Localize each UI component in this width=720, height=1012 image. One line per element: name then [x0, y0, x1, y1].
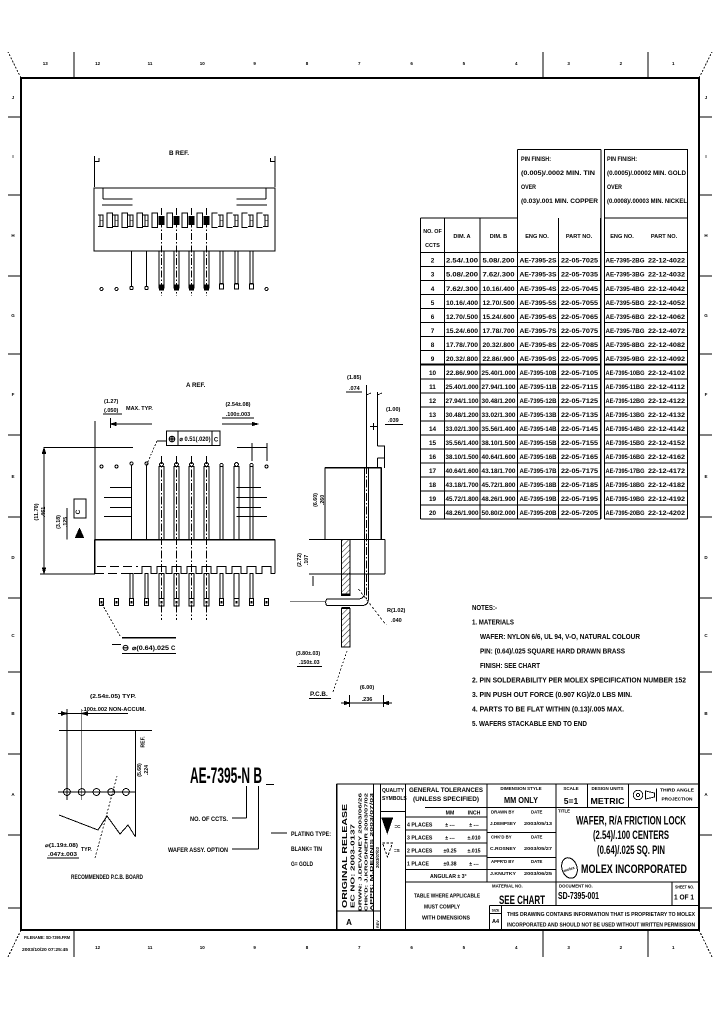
- svg-text:2: 2: [620, 61, 623, 66]
- svg-text:22.86/.900: 22.86/.900: [446, 370, 479, 377]
- svg-text:22-05-7175: 22-05-7175: [561, 468, 599, 475]
- svg-text:7: 7: [358, 61, 361, 66]
- svg-text:± ---: ± ---: [445, 836, 455, 842]
- checked by cell: [490, 835, 552, 853]
- table header row: [423, 229, 677, 249]
- approved by cell: [490, 859, 552, 877]
- svg-text:40.64/1.600: 40.64/1.600: [482, 454, 517, 461]
- svg-text:THIS DRAWING CONTAINS INFORMAT: THIS DRAWING CONTAINS INFORMATION THAT I…: [507, 912, 695, 918]
- svg-text:(6.60): (6.60): [313, 493, 319, 507]
- table row 15 circuits: [429, 440, 686, 447]
- svg-text:22-12-4042: 22-12-4042: [648, 286, 686, 293]
- svg-text:PIN FINISH:: PIN FINISH:: [607, 157, 637, 163]
- svg-text:22-12-4092: 22-12-4092: [648, 356, 686, 363]
- svg-text:2003/06/25: 2003/06/25: [524, 871, 552, 877]
- table row 3 circuits: [431, 272, 686, 279]
- svg-text:C: C: [171, 646, 176, 652]
- svg-text:9: 9: [431, 356, 435, 363]
- svg-text:22-12-4062: 22-12-4062: [648, 314, 686, 321]
- svg-text:AE-7395-19B: AE-7395-19B: [520, 496, 558, 503]
- svg-text:D: D: [11, 555, 15, 560]
- svg-text:A4: A4: [492, 919, 500, 925]
- svg-text:AE-7395-12BG: AE-7395-12BG: [606, 398, 645, 405]
- pcb board height dim: [137, 736, 150, 777]
- svg-text:CCTS: CCTS: [425, 243, 440, 249]
- svg-text:DESIGN UNITS: DESIGN UNITS: [591, 786, 623, 791]
- svg-text:22-12-4162: 22-12-4162: [648, 454, 686, 461]
- svg-text:ENG NO.: ENG NO.: [610, 234, 634, 240]
- svg-text:AE-7395-6S: AE-7395-6S: [520, 314, 557, 321]
- A REF body block: [95, 540, 275, 574]
- svg-text:METRIC: METRIC: [591, 796, 625, 806]
- svg-text:22-05-7125: 22-05-7125: [561, 398, 599, 405]
- svg-text:⌀(1.19±.08): ⌀(1.19±.08): [45, 843, 78, 849]
- svg-text:17.78/.700: 17.78/.700: [446, 342, 479, 349]
- svg-text:(3.80±.03): (3.80±.03): [296, 651, 320, 657]
- table row 5 circuits: [431, 300, 686, 307]
- svg-text:13: 13: [429, 412, 437, 419]
- svg-text:12.70/.500: 12.70/.500: [483, 300, 516, 307]
- svg-text:30.48/1.200: 30.48/1.200: [446, 412, 480, 419]
- svg-text:22-05-7105: 22-05-7105: [561, 370, 599, 377]
- svg-text:18: 18: [429, 482, 437, 489]
- svg-text:AE-7395-8S: AE-7395-8S: [520, 342, 557, 349]
- B REF connector body (top view): [94, 188, 275, 251]
- svg-text:PIN: (0.64)/.025 SQUARE HARD D: PIN: (0.64)/.025 SQUARE HARD DRAWN BRASS: [480, 647, 625, 656]
- svg-text:22-05-7045: 22-05-7045: [561, 286, 599, 293]
- svg-text:P.C.B.: P.C.B.: [310, 691, 328, 698]
- A REF datum height dimension: [56, 508, 69, 540]
- proprietary note: [507, 912, 695, 929]
- svg-text:11: 11: [148, 945, 153, 950]
- A REF pins below body: [99, 574, 268, 607]
- svg-text:AE-7395-20B: AE-7395-20B: [520, 510, 558, 517]
- svg-text:22-05-7095: 22-05-7095: [561, 356, 599, 363]
- svg-text:12.70/.500: 12.70/.500: [446, 314, 479, 321]
- position tolerance frame: [146, 431, 220, 466]
- svg-text:D: D: [704, 555, 708, 560]
- table row 10 circuits: [429, 370, 686, 377]
- svg-text:22-05-7085: 22-05-7085: [561, 342, 599, 349]
- svg-text:±0.38: ±0.38: [444, 862, 457, 868]
- svg-text:22-05-7205: 22-05-7205: [561, 510, 599, 517]
- svg-text:EC NO: 2003-0137: EC NO: 2003-0137: [351, 824, 357, 908]
- pcb board outline: [59, 731, 152, 838]
- svg-text:3 PLACES: 3 PLACES: [407, 836, 433, 842]
- svg-text:20: 20: [429, 510, 437, 517]
- svg-text:MM: MM: [446, 811, 455, 817]
- svg-text:22-12-4172: 22-12-4172: [648, 468, 686, 475]
- svg-text:MOLEX INCORPORATED: MOLEX INCORPORATED: [581, 862, 687, 876]
- svg-text:AE-7395-2BG: AE-7395-2BG: [606, 258, 645, 265]
- svg-text:RECOMMENDED P.C.B. BOARD: RECOMMENDED P.C.B. BOARD: [71, 875, 144, 881]
- svg-text:22-12-4152: 22-12-4152: [648, 440, 686, 447]
- svg-text:2003/10/20 07:25:45: 2003/10/20 07:25:45: [22, 947, 68, 953]
- svg-text:2003/07/03: 2003/07/03: [375, 846, 380, 868]
- svg-text:⊖: ⊖: [122, 643, 129, 653]
- svg-text:22-12-4102: 22-12-4102: [648, 370, 686, 377]
- svg-text:NO. OF: NO. OF: [423, 229, 442, 235]
- svg-text:4 PLACES: 4 PLACES: [407, 823, 433, 829]
- svg-text:(UNLESS SPECIFIED): (UNLESS SPECIFIED): [413, 796, 479, 803]
- svg-text:4: 4: [515, 61, 518, 66]
- svg-text:3: 3: [431, 272, 435, 279]
- svg-text:43.18/1.700: 43.18/1.700: [446, 482, 480, 489]
- svg-text:WAFER, R/A FRICTION LOCK: WAFER, R/A FRICTION LOCK: [576, 814, 686, 828]
- table row 11 circuits: [429, 384, 686, 391]
- svg-text:OVER: OVER: [521, 185, 537, 191]
- svg-text:22-12-4032: 22-12-4032: [648, 272, 686, 279]
- svg-text:AE-7395-18B: AE-7395-18B: [520, 482, 558, 489]
- pin finish note tin: [518, 150, 601, 218]
- svg-text:2: 2: [431, 258, 435, 265]
- B REF dimension: [95, 150, 276, 187]
- svg-text:J: J: [705, 95, 708, 100]
- svg-text:22-05-7155: 22-05-7155: [561, 440, 599, 447]
- part number table grid: [421, 218, 688, 519]
- svg-text:(3.18): (3.18): [56, 515, 62, 529]
- dimension style cell: [500, 786, 541, 805]
- svg-text:30.48/1.200: 30.48/1.200: [482, 398, 517, 405]
- svg-text:A REF.: A REF.: [186, 382, 206, 389]
- svg-text:22-05-7135: 22-05-7135: [561, 412, 599, 419]
- svg-text:.100±.003: .100±.003: [226, 412, 250, 418]
- svg-text:22-05-7055: 22-05-7055: [561, 300, 599, 307]
- svg-text:AE-7395-10B: AE-7395-10B: [520, 370, 558, 377]
- svg-text:22-05-7145: 22-05-7145: [561, 426, 599, 433]
- svg-text:I: I: [705, 154, 706, 159]
- svg-text:AE-7395-17B: AE-7395-17B: [520, 468, 558, 475]
- svg-text:E: E: [11, 474, 14, 479]
- svg-text:G: G: [704, 313, 708, 318]
- table row 8 circuits: [431, 342, 686, 349]
- svg-text:22-12-4192: 22-12-4192: [648, 496, 686, 503]
- svg-text:7: 7: [431, 328, 435, 335]
- pin finish note gold: [605, 150, 688, 218]
- svg-text:REV: REV: [376, 920, 380, 928]
- svg-text:± ---: ± ---: [469, 862, 479, 868]
- svg-text:22-12-4202: 22-12-4202: [648, 510, 686, 517]
- table row 2 circuits: [431, 258, 686, 265]
- svg-text:INCH: INCH: [468, 811, 481, 817]
- svg-text:J: J: [12, 95, 15, 100]
- document no cell: [558, 884, 599, 903]
- svg-text:22-05-7075: 22-05-7075: [561, 328, 599, 335]
- svg-text:AE-7395-20BG: AE-7395-20BG: [606, 510, 645, 517]
- svg-text:SCALE: SCALE: [563, 786, 578, 791]
- legend leader no of ccts: [190, 786, 247, 823]
- svg-text:22-05-7195: 22-05-7195: [561, 496, 599, 503]
- svg-text:AE-7395-3BG: AE-7395-3BG: [606, 272, 645, 279]
- legend plating type: [271, 832, 331, 868]
- svg-text:1 OF 1: 1 OF 1: [674, 893, 694, 902]
- svg-text:AE-7395-16B: AE-7395-16B: [520, 454, 558, 461]
- svg-text:NO. OF CCTS.: NO. OF CCTS.: [190, 817, 228, 823]
- revision letter: [346, 918, 352, 927]
- svg-text:SIZE: SIZE: [492, 909, 500, 913]
- svg-text:NOTES:-: NOTES:-: [472, 603, 497, 612]
- svg-text:35.56/1.400: 35.56/1.400: [482, 426, 517, 433]
- tolerance table: [407, 811, 481, 880]
- table row 6 circuits: [431, 314, 686, 321]
- third angle projection symbol: [633, 788, 694, 802]
- svg-text:C: C: [704, 633, 708, 638]
- A REF pins above body: [100, 456, 268, 620]
- svg-text:19: 19: [429, 496, 437, 503]
- svg-text:27.94/1.100: 27.94/1.100: [446, 398, 480, 405]
- svg-text:C: C: [11, 633, 15, 638]
- B REF contact cavities row: [98, 213, 268, 228]
- svg-text:4. PARTS TO BE FLAT WITHIN (0.: 4. PARTS TO BE FLAT WITHIN (0.13)/.005 M…: [472, 705, 624, 714]
- svg-text:DATE: DATE: [531, 810, 543, 815]
- section view latch tab: [378, 446, 385, 468]
- svg-text:5: 5: [463, 945, 466, 950]
- svg-text:22-12-4142: 22-12-4142: [648, 426, 686, 433]
- svg-text:DIM. A: DIM. A: [453, 234, 470, 240]
- quality symbols: [382, 788, 407, 857]
- svg-text:2. PIN SOLDERABILITY PER MOLEX: 2. PIN SOLDERABILITY PER MOLEX SPECIFICA…: [472, 676, 686, 685]
- svg-text:.150±.03: .150±.03: [299, 660, 320, 666]
- svg-text:WAFER: NYLON 6/6, UL 94, V-O,: WAFER: NYLON 6/6, UL 94, V-O, NATURAL CO…: [480, 632, 641, 641]
- svg-text:5: 5: [463, 61, 466, 66]
- svg-text:8: 8: [306, 945, 309, 950]
- svg-text:MATERIAL NO.: MATERIAL NO.: [492, 884, 523, 889]
- table row 16 circuits: [429, 454, 686, 461]
- svg-text:J.KNUTKY: J.KNUTKY: [490, 871, 517, 877]
- svg-text:AE-7395-15BG: AE-7395-15BG: [606, 440, 645, 447]
- section view right-angle pin: [290, 385, 368, 606]
- svg-text:TITLE: TITLE: [558, 809, 570, 814]
- svg-text:(0.0008)/.00003 MIN. NICKEL: (0.0008)/.00003 MIN. NICKEL: [607, 199, 687, 205]
- svg-text:(2.54)/.100 CENTERS: (2.54)/.100 CENTERS: [593, 828, 669, 842]
- svg-text:SHEET NO.: SHEET NO.: [675, 885, 694, 890]
- svg-text:WITH DIMENSIONS: WITH DIMENSIONS: [422, 916, 470, 922]
- metric note: [414, 894, 480, 922]
- pin bend radius callout: [359, 589, 406, 625]
- svg-text:±.010: ±.010: [468, 836, 481, 842]
- svg-text:33.02/1.300: 33.02/1.300: [482, 412, 517, 419]
- svg-text:6: 6: [410, 61, 413, 66]
- A REF left body edge line: [94, 421, 96, 540]
- A REF label: [186, 382, 206, 389]
- svg-text:4: 4: [515, 945, 518, 950]
- svg-text:22-05-7035: 22-05-7035: [561, 272, 599, 279]
- svg-text:16: 16: [429, 454, 437, 461]
- svg-text:SEE CHART: SEE CHART: [499, 893, 545, 907]
- table row 19 circuits: [429, 496, 686, 503]
- svg-text:.236: .236: [362, 697, 373, 703]
- svg-text:(.050): (.050): [104, 408, 119, 414]
- svg-text:AE-7395-2S: AE-7395-2S: [520, 258, 557, 265]
- svg-text:15: 15: [429, 440, 437, 447]
- svg-text:DIMENSION STYLE: DIMENSION STYLE: [500, 786, 541, 791]
- section view body height dim: [313, 493, 326, 507]
- datum C flag: [74, 499, 86, 538]
- svg-text:5=1: 5=1: [564, 796, 579, 806]
- svg-text:11: 11: [148, 61, 153, 66]
- svg-text:(1.00): (1.00): [386, 407, 401, 413]
- svg-text:=S: =S: [394, 848, 400, 853]
- size cell: [492, 909, 500, 926]
- svg-text:22-12-4022: 22-12-4022: [648, 258, 686, 265]
- svg-text:22-05-7185: 22-05-7185: [561, 482, 599, 489]
- A REF side break lines left: [104, 488, 132, 517]
- svg-text:WAFER ASSY. OPTION: WAFER ASSY. OPTION: [168, 848, 228, 854]
- pcb hole diameter callout: [45, 776, 117, 858]
- svg-text:22-05-7025: 22-05-7025: [561, 258, 599, 265]
- A REF side break lines right: [237, 488, 268, 517]
- svg-text:1: 1: [672, 61, 675, 66]
- A REF left max typ dimension: [103, 399, 153, 428]
- svg-text:FINISH: SEE CHART: FINISH: SEE CHART: [480, 661, 540, 670]
- A REF overall height dimension: [34, 448, 133, 574]
- svg-text:CHK'D: J.KROSNEHR 2003/07/02: CHK'D: J.KROSNEHR 2003/07/02: [364, 792, 370, 911]
- scale cell: [563, 786, 578, 806]
- svg-text:50.80/2.000: 50.80/2.000: [482, 510, 517, 517]
- svg-text:5.08/.200: 5.08/.200: [446, 272, 479, 279]
- svg-text:9: 9: [253, 945, 256, 950]
- svg-text:AE-7395-11B: AE-7395-11B: [520, 384, 558, 391]
- svg-text:38.10/1.500: 38.10/1.500: [446, 454, 480, 461]
- svg-text:(2.54±.08): (2.54±.08): [225, 402, 250, 408]
- svg-text:TYP.: TYP.: [81, 847, 92, 853]
- svg-text:DIM. B: DIM. B: [490, 234, 507, 240]
- section view standoff dim: [297, 553, 313, 586]
- svg-text:AE-7395-9S: AE-7395-9S: [520, 356, 557, 363]
- svg-text:(0.64)/.025 SQ. PIN: (0.64)/.025 SQ. PIN: [597, 843, 665, 857]
- svg-text:7.62/.300: 7.62/.300: [446, 286, 479, 293]
- svg-text:5.08/.200: 5.08/.200: [483, 258, 516, 265]
- material no cell: [492, 884, 545, 908]
- svg-text:H: H: [704, 233, 707, 238]
- svg-text:.047±.003: .047±.003: [48, 852, 77, 858]
- svg-text:48.26/1.900: 48.26/1.900: [446, 510, 480, 517]
- svg-text:2 PLACES: 2 PLACES: [407, 849, 433, 855]
- svg-text:AE-7395-4BG: AE-7395-4BG: [606, 286, 645, 293]
- pin tip tolerance callout: [102, 604, 176, 654]
- svg-text:5: 5: [431, 300, 435, 307]
- svg-text:(0.03)/.001 MIN. COPPER: (0.03)/.001 MIN. COPPER: [521, 199, 599, 205]
- table row 18 circuits: [429, 482, 686, 489]
- svg-text:22-05-7165: 22-05-7165: [561, 454, 599, 461]
- svg-text:A: A: [346, 918, 352, 927]
- svg-text:QUALITY: QUALITY: [382, 788, 405, 794]
- svg-text:GENERAL TOLERANCES: GENERAL TOLERANCES: [409, 787, 483, 794]
- svg-text:H: H: [11, 233, 14, 238]
- svg-text:AE-7395-18BG: AE-7395-18BG: [606, 482, 645, 489]
- drawn by cell: [490, 810, 552, 828]
- svg-text:FILENAME: SD-7395.FRM: FILENAME: SD-7395.FRM: [24, 935, 70, 940]
- svg-text:8: 8: [306, 61, 309, 66]
- sheet border frame: [21, 78, 699, 930]
- svg-text:(11.70): (11.70): [34, 503, 40, 520]
- svg-text:35.56/1.400: 35.56/1.400: [446, 440, 480, 447]
- svg-text:11: 11: [429, 384, 436, 391]
- svg-text:22-12-4132: 22-12-4132: [648, 412, 686, 419]
- pcb hole pattern: [58, 709, 136, 800]
- svg-text:F: F: [705, 392, 708, 397]
- svg-text:⌀(0.64).025: ⌀(0.64).025: [132, 646, 170, 652]
- svg-text:.224: .224: [144, 765, 150, 775]
- svg-text:40.64/1.600: 40.64/1.600: [446, 468, 480, 475]
- svg-text:DRWN: J.DEVANEY 2003/06/26: DRWN: J.DEVANEY 2003/06/26: [358, 792, 364, 911]
- svg-text:2003/05/13: 2003/05/13: [524, 821, 552, 827]
- svg-text:C: C: [214, 438, 219, 444]
- svg-text:.125: .125: [63, 517, 69, 527]
- svg-text:± ---: ± ---: [469, 823, 479, 829]
- board thickness dim: [296, 651, 322, 667]
- svg-text:B REF.: B REF.: [169, 150, 189, 157]
- svg-text:.461: .461: [41, 507, 47, 518]
- svg-text:22-05-7065: 22-05-7065: [561, 314, 599, 321]
- svg-text:25.40/1.000: 25.40/1.000: [446, 384, 480, 391]
- svg-text:5. WAFERS STACKABLE END TO END: 5. WAFERS STACKABLE END TO END: [472, 719, 588, 728]
- svg-text:22-12-4072: 22-12-4072: [648, 328, 686, 335]
- svg-text:22-12-4182: 22-12-4182: [648, 482, 686, 489]
- svg-text:1. MATERIALS: 1. MATERIALS: [472, 618, 514, 627]
- svg-text:(2.72): (2.72): [297, 553, 303, 567]
- B REF pins below body: [100, 208, 268, 296]
- table row 20 circuits: [429, 510, 686, 517]
- part number legend: [190, 763, 274, 788]
- svg-text:22-12-4122: 22-12-4122: [648, 398, 686, 405]
- svg-text:(1.85): (1.85): [347, 375, 362, 381]
- svg-text:A: A: [11, 792, 15, 797]
- svg-text:MM ONLY: MM ONLY: [504, 796, 539, 805]
- pin protrusion dim: [341, 685, 392, 707]
- svg-text:±.015: ±.015: [468, 849, 481, 855]
- svg-text:22-05-7115: 22-05-7115: [561, 384, 599, 391]
- svg-text:.039: .039: [388, 418, 399, 424]
- svg-text:AE-7395-7S: AE-7395-7S: [520, 328, 557, 335]
- svg-text:22-12-4052: 22-12-4052: [648, 300, 686, 307]
- svg-text:C.ROSNEY: C.ROSNEY: [490, 846, 517, 852]
- svg-text:E: E: [704, 474, 707, 479]
- general tolerances header: [409, 787, 483, 803]
- svg-text:2: 2: [620, 945, 623, 950]
- svg-text:DATE: DATE: [531, 859, 543, 864]
- svg-text:3: 3: [567, 61, 570, 66]
- svg-text:.040: .040: [391, 618, 402, 624]
- zone numbers bottom: [95, 945, 675, 950]
- svg-text:AE-7395-13BG: AE-7395-13BG: [606, 412, 645, 419]
- svg-text:22-12-4112: 22-12-4112: [648, 384, 686, 391]
- pcb section hatched bar: [341, 540, 350, 648]
- svg-text:13: 13: [43, 61, 49, 66]
- svg-text:12: 12: [95, 945, 101, 950]
- svg-text:17.78/.700: 17.78/.700: [483, 328, 516, 335]
- svg-text:A: A: [704, 792, 708, 797]
- svg-text:(0.0005)/.00002 MIN. GOLD: (0.0005)/.00002 MIN. GOLD: [607, 171, 687, 177]
- svg-text:B: B: [11, 711, 15, 716]
- svg-text:(5.68): (5.68): [137, 763, 143, 777]
- section view wafer body: [309, 468, 385, 574]
- svg-text:15.24/.600: 15.24/.600: [483, 314, 516, 321]
- svg-text:ANGULAR ± 3°: ANGULAR ± 3°: [430, 874, 467, 880]
- svg-text:CHK'D BY: CHK'D BY: [491, 835, 512, 840]
- svg-text:AE-7395-16BG: AE-7395-16BG: [606, 454, 645, 461]
- svg-text:PART NO.: PART NO.: [651, 234, 678, 240]
- svg-text:PIN FINISH:: PIN FINISH:: [521, 157, 551, 163]
- svg-text:INCORPORATED AND SHOULD NOT BE: INCORPORATED AND SHOULD NOT BE USED WITH…: [507, 923, 695, 929]
- svg-text:AE-7395-N B: AE-7395-N B: [190, 763, 262, 788]
- svg-text:45.72/1.800: 45.72/1.800: [446, 496, 480, 503]
- svg-text:± ---: ± ---: [445, 823, 455, 829]
- svg-text:BLANK= TIN: BLANK= TIN: [291, 847, 322, 853]
- recommended pcb label: [71, 875, 144, 881]
- svg-text:3: 3: [567, 945, 570, 950]
- svg-text:C: C: [75, 509, 82, 514]
